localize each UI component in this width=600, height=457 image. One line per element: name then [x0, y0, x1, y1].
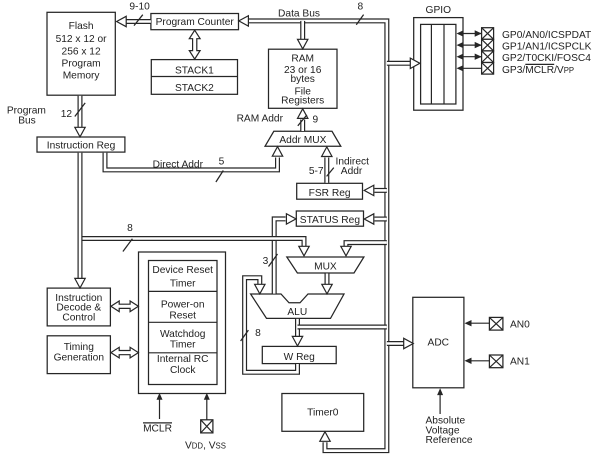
direct address wire Instruction Reg to Addr MUX — [105, 153, 278, 170]
svg-text:Instruction Reg: Instruction Reg — [47, 141, 116, 152]
svg-text:STACK2: STACK2 — [175, 83, 214, 94]
svg-text:5-7: 5-7 — [309, 166, 324, 177]
svg-text:Power-on: Power-on — [161, 300, 205, 311]
svg-text:5: 5 — [219, 157, 225, 168]
status flag wire ALU to STATUS Reg — [274, 219, 285, 294]
bus width slash 9 — [298, 115, 307, 126]
svg-text:Memory: Memory — [63, 71, 101, 82]
W Reg block — [262, 346, 336, 363]
svg-text:3: 3 — [263, 256, 269, 267]
svg-text:GP1/AN1/ICSPCLK: GP1/AN1/ICSPCLK — [502, 42, 592, 53]
double headed arrow Timing Generation to reset block — [111, 347, 138, 358]
AN1 analog input pad — [465, 355, 531, 368]
main data bus wire — [248, 21, 387, 451]
wire ALU to W Reg — [295, 319, 300, 338]
svg-text:VDD, VSS: VDD, VSS — [185, 440, 226, 451]
flash program memory block — [47, 12, 115, 95]
Addr MUX trapezoid — [265, 131, 341, 146]
open arrow into MUX right input — [341, 246, 351, 256]
instruction register block — [37, 137, 125, 152]
double headed arrow Instruction Decode to reset block — [111, 301, 138, 312]
wire Instruction Reg to Instruction Decode — [78, 153, 83, 280]
svg-text:STACK1: STACK1 — [175, 66, 214, 77]
svg-text:ALU: ALU — [287, 307, 307, 318]
data bus branch into ADC — [387, 341, 405, 346]
svg-text:Timer0: Timer0 — [307, 408, 339, 419]
svg-text:bytes: bytes — [291, 74, 315, 85]
svg-text:AN1: AN1 — [510, 357, 530, 368]
svg-text:Program Counter: Program Counter — [156, 17, 235, 28]
svg-text:W Reg: W Reg — [284, 352, 315, 363]
GPIO block — [414, 5, 463, 110]
open arrow into Timer0 bottom — [320, 432, 330, 442]
svg-text:Bus: Bus — [18, 116, 36, 127]
svg-text:MCLR: MCLR — [143, 424, 172, 435]
stack block STACK1/STACK2 — [151, 60, 237, 95]
timing generation block — [47, 336, 110, 374]
open arrow into ALU top left — [255, 284, 265, 294]
reset and clock outer block — [139, 252, 226, 394]
ALU output wire to data bus — [298, 325, 387, 330]
open arrow into Addr MUX bottom left — [272, 147, 282, 157]
program bus wire Flash to Instruction Reg — [78, 96, 83, 129]
open arrow into Program Counter right edge — [239, 16, 249, 26]
wire MUX to ALU — [325, 274, 330, 286]
FSR Reg block — [297, 183, 363, 199]
svg-text:Addr: Addr — [341, 166, 363, 177]
svg-text:Direct Addr: Direct Addr — [153, 160, 204, 171]
svg-text:9: 9 — [313, 114, 319, 125]
svg-text:Data Bus: Data Bus — [278, 8, 320, 19]
bus width slash 5-7 — [327, 168, 334, 177]
svg-text:8: 8 — [255, 328, 261, 339]
bus width slash 8 feedback — [241, 330, 249, 341]
open arrow into STATUS Reg left edge — [286, 214, 296, 224]
MUX trapezoid — [287, 257, 364, 273]
W Reg feedback wire to ALU — [245, 278, 298, 373]
svg-text:STATUS Reg: STATUS Reg — [300, 215, 361, 226]
bus width slash 8 top — [356, 15, 363, 25]
svg-text:Control: Control — [62, 313, 95, 324]
svg-text:256 x 12: 256 x 12 — [62, 47, 101, 58]
svg-text:Generation: Generation — [54, 353, 104, 364]
STATUS Reg block — [296, 211, 363, 226]
open arrow into ALU top — [322, 284, 332, 294]
open arrow into Instruction Reg top — [75, 127, 85, 137]
open arrow into Instruction Decode top — [75, 278, 85, 288]
svg-text:512 x 12 or: 512 x 12 or — [56, 34, 108, 45]
open arrow into W Reg top — [292, 336, 302, 346]
svg-text:RAM Addr: RAM Addr — [237, 114, 284, 125]
GPIO pin GP2 wire and pad — [457, 51, 592, 64]
label Indirect Addr — [336, 157, 370, 177]
svg-text:Clock: Clock — [170, 365, 196, 376]
Vdd Vss power pin — [185, 393, 226, 451]
wire Program Counter to Flash — [126, 19, 151, 24]
svg-text:Program: Program — [62, 58, 101, 69]
svg-text:9-10: 9-10 — [129, 2, 150, 13]
MCLR input wire — [143, 393, 172, 435]
GPIO pin GP3 wire and pad — [457, 63, 575, 76]
svg-text:Addr MUX: Addr MUX — [279, 135, 326, 146]
AN0 analog input pad — [465, 317, 531, 330]
open arrow into Addr MUX bottom right — [322, 147, 332, 157]
reset and clock inner block with four cells — [149, 261, 218, 385]
data bus branch into RAM top — [300, 21, 305, 41]
svg-text:Registers: Registers — [281, 96, 324, 107]
data bus branch into GPIO — [387, 61, 411, 66]
open arrow into ADC left edge — [404, 338, 414, 348]
instruction decode and control block — [47, 288, 110, 326]
open arrow into RAM bottom — [298, 109, 308, 119]
open arrow into FSR Reg right edge — [364, 185, 374, 195]
svg-text:Timing: Timing — [64, 342, 95, 353]
svg-text:8: 8 — [127, 223, 133, 234]
svg-text:Reset: Reset — [169, 311, 196, 322]
data bus branch from Instruction Reg, 8-bit bus to MUX — [80, 239, 304, 248]
svg-text:8: 8 — [357, 1, 363, 12]
svg-text:Flash: Flash — [69, 21, 94, 32]
absolute voltage reference arrow into ADC bottom — [426, 388, 473, 446]
svg-text:12: 12 — [61, 109, 73, 120]
data bus branch to MUX right input — [346, 243, 387, 248]
data bus branch into STATUS Reg — [375, 217, 387, 222]
svg-text:AN0: AN0 — [510, 320, 530, 331]
svg-text:Timer: Timer — [170, 278, 196, 289]
svg-text:FSR Reg: FSR Reg — [309, 188, 351, 199]
open arrow into STATUS Reg right edge — [364, 214, 374, 224]
open arrow into GPIO left edge — [410, 58, 420, 68]
program counter block — [151, 14, 239, 30]
bus width slash 3 — [269, 254, 278, 267]
bus width slash 8 — [123, 239, 132, 252]
bus width slash 12 — [75, 103, 85, 117]
svg-text:GP2/T0CKI/FOSC4: GP2/T0CKI/FOSC4 — [502, 53, 591, 64]
bus width slash 9-10 — [134, 15, 143, 26]
svg-text:GPIO: GPIO — [426, 5, 452, 16]
RAM address wire Addr MUX to RAM — [300, 120, 305, 132]
GPIO pin GP1 wire and pad — [457, 39, 592, 52]
ALU block — [251, 294, 344, 318]
svg-text:Internal RC: Internal RC — [157, 354, 209, 365]
open arrow into MUX left input — [299, 246, 309, 256]
RAM file registers block — [269, 49, 338, 108]
ADC block — [413, 297, 464, 388]
svg-text:GP3/MCLR/VPP: GP3/MCLR/VPP — [502, 65, 574, 76]
GPIO pin GP0 wire and pad — [457, 28, 592, 41]
bus width slash 5 — [216, 171, 223, 183]
data bus branch into FSR Reg — [375, 188, 387, 193]
label Program Bus — [7, 106, 46, 127]
open arrow into RAM top — [298, 39, 308, 49]
svg-text:Device Reset: Device Reset — [152, 265, 213, 276]
svg-text:Timer: Timer — [170, 339, 196, 350]
svg-text:ADC: ADC — [428, 338, 450, 349]
indirect address wire FSR Reg to Addr MUX — [324, 158, 329, 183]
double headed arrow Program Counter to Stack — [189, 30, 200, 59]
svg-text:GP0/AN0/ICSPDAT: GP0/AN0/ICSPDAT — [502, 30, 591, 41]
Timer0 block — [282, 394, 364, 432]
open arrow into Flash right edge — [117, 16, 127, 26]
svg-text:Reference: Reference — [426, 435, 473, 446]
svg-text:RAM: RAM — [291, 54, 314, 65]
svg-text:MUX: MUX — [314, 261, 337, 272]
